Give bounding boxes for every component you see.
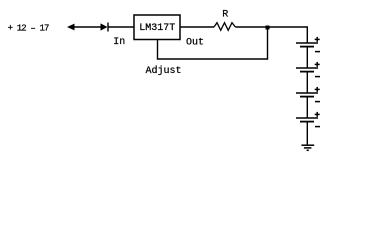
svg-text:R: R bbox=[222, 10, 228, 21]
B3 minus label bbox=[315, 101, 320, 103]
wire resistor to junction node bbox=[235, 26, 267, 28]
regulator U1 LM317T box bbox=[134, 15, 180, 40]
wire B1 to B2 bbox=[306, 47, 308, 68]
wire arrow to diode D1 bbox=[74, 26, 101, 28]
battery cell B3 bbox=[296, 93, 318, 97]
junction node dot bbox=[266, 26, 270, 30]
adjust feedback wire bbox=[158, 28, 268, 59]
value label R bbox=[222, 10, 228, 21]
wire B2 to B3 bbox=[306, 72, 308, 93]
input terminal arrow bbox=[67, 24, 75, 31]
wire Out pin to resistor R bbox=[180, 26, 214, 28]
battery cell B2 bbox=[296, 68, 318, 72]
supply voltage label "+ 12 - 17" bbox=[8, 24, 49, 34]
pin label In bbox=[113, 37, 125, 48]
wire B3 to B4 bbox=[306, 97, 308, 118]
ground bbox=[301, 145, 314, 150]
battery cell B1 bbox=[296, 43, 318, 47]
pin label Adjust bbox=[146, 65, 182, 77]
B2 minus label bbox=[315, 76, 320, 78]
wire diode to regulator In pin bbox=[108, 26, 134, 28]
B1 plus label bbox=[315, 37, 320, 42]
B4 plus label bbox=[315, 112, 320, 117]
B1 minus label bbox=[315, 51, 320, 53]
svg-text:LM317T: LM317T bbox=[139, 23, 175, 34]
wire junction to battery positive terminal bbox=[268, 27, 308, 43]
resistor R bbox=[214, 23, 235, 31]
B4 minus label bbox=[315, 126, 320, 128]
diode D1 bbox=[101, 23, 109, 32]
svg-text:+ 12 – 17: + 12 – 17 bbox=[8, 24, 49, 34]
wire B4 to ground bbox=[306, 122, 308, 146]
pin label Out bbox=[186, 38, 204, 49]
B2 plus label bbox=[315, 62, 320, 67]
battery cell B4 bbox=[296, 118, 318, 122]
svg-text:Adjust: Adjust bbox=[146, 65, 182, 77]
svg-text:Out: Out bbox=[186, 38, 204, 49]
B3 plus label bbox=[315, 87, 320, 92]
svg-text:In: In bbox=[113, 37, 125, 48]
